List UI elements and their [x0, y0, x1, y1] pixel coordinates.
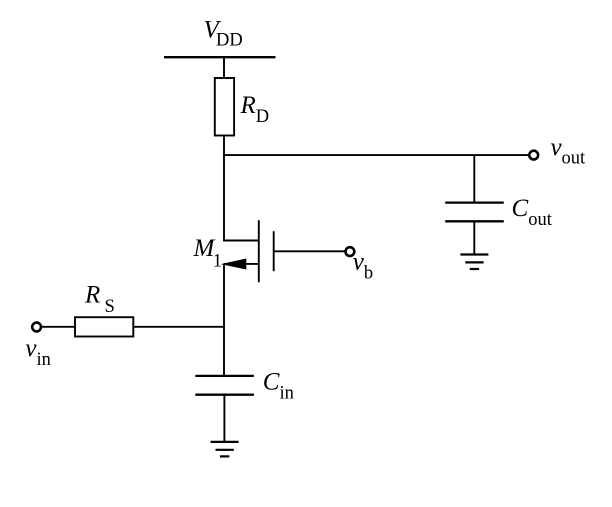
wire input node down to Cin — [223, 327, 225, 377]
resistor RD — [215, 78, 234, 136]
wire VDD rail to RD — [223, 57, 225, 78]
wire Cin to ground — [223, 395, 225, 442]
channel bar — [258, 220, 260, 282]
capacitor Cin — [195, 376, 254, 395]
gate bar — [273, 231, 275, 271]
terminal vout — [529, 151, 538, 160]
wire Cout to ground — [473, 221, 475, 254]
ground (output side) — [460, 255, 488, 270]
terminal vin — [32, 323, 41, 332]
transistor M1 — [221, 220, 274, 282]
terminal vb — [346, 247, 355, 256]
drain horizontal lead — [223, 240, 259, 242]
wire vin terminal to RS — [42, 326, 75, 328]
source horizontal lead — [224, 263, 259, 265]
capacitor Cout — [445, 203, 504, 222]
resistor RS — [75, 317, 133, 336]
power rail VDD — [164, 56, 276, 58]
source arrow — [221, 259, 247, 270]
wire output node down to drain — [223, 155, 225, 241]
wire source down to input node — [223, 264, 225, 328]
wire RS to input node — [133, 326, 225, 328]
ground (input side) — [211, 442, 239, 457]
wire RD to output node — [223, 136, 225, 157]
wire gate to vb terminal — [274, 250, 345, 252]
wire output node to vout terminal — [224, 154, 529, 156]
wire output node down to Cout — [473, 155, 475, 203]
